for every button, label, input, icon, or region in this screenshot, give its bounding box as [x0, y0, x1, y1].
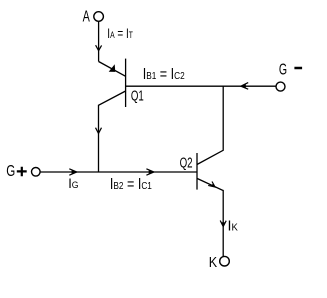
label G- minus sign	[294, 67, 302, 70]
wire Q2 collector	[197, 86, 223, 164]
transistor Q1 emitter arrow (PNP)	[109, 64, 116, 72]
wire gate rail	[40, 171, 197, 173]
wire anode lead	[98, 21, 100, 61]
terminal K circle	[220, 256, 230, 266]
terminal A circle	[94, 12, 104, 22]
svg-text:Q1: Q1	[131, 87, 144, 104]
arrow IK down	[220, 221, 226, 227]
arrow IG right	[69, 169, 77, 175]
arrow gate negative (left)	[241, 83, 248, 90]
wire Q1 emitter diagonal	[99, 62, 126, 77]
wire Q2 emitter	[197, 178, 223, 256]
wire Q1 base rail to G-	[126, 85, 277, 87]
svg-text:A: A	[83, 9, 90, 26]
transistor Q2 emitter arrow (NPN)	[208, 182, 215, 188]
arrow IC1 down	[96, 128, 102, 134]
wire Q1 collector	[99, 91, 126, 172]
arrow IB2 right	[146, 169, 154, 175]
label G+ plus sign	[17, 167, 27, 176]
transistor Q1 base bar	[125, 59, 127, 107]
terminal G+ circle	[32, 168, 41, 177]
svg-text:K: K	[209, 254, 217, 271]
terminal G- circle	[276, 82, 285, 91]
svg-text:G: G	[6, 163, 15, 180]
svg-text:Q2: Q2	[180, 154, 193, 171]
transistor Q2 base bar	[196, 153, 198, 190]
arrow IA down	[96, 45, 102, 50]
svg-text:G: G	[279, 62, 287, 79]
